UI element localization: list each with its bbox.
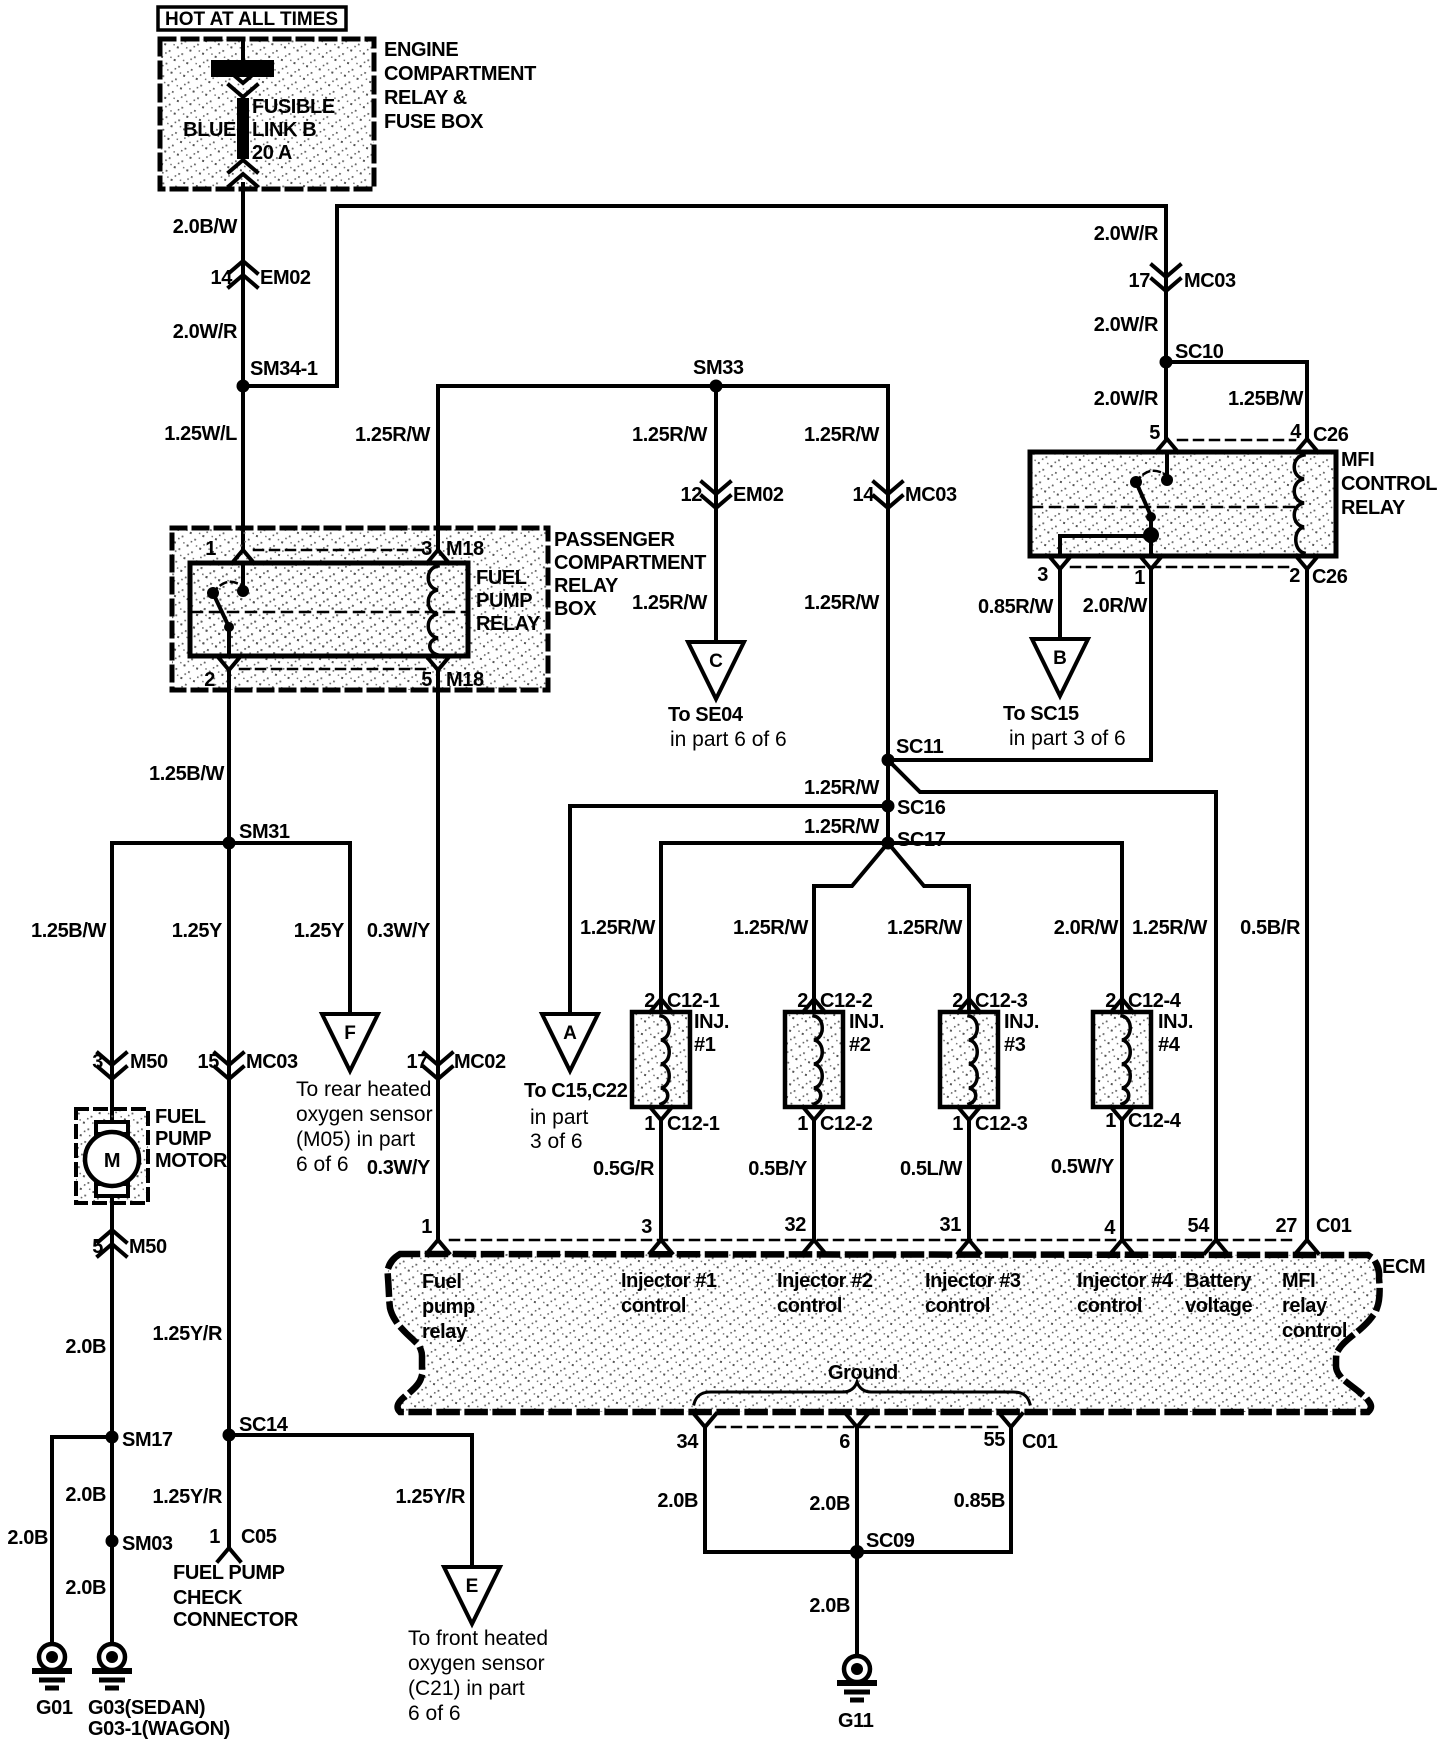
svg-text:12: 12 <box>681 484 703 506</box>
fuse bus bar <box>213 62 272 75</box>
node SC14 <box>223 1429 236 1442</box>
fuel pump motor box (dashed) <box>76 1109 148 1203</box>
svg-text:C12-1: C12-1 <box>667 990 720 1012</box>
svg-text:1.25R/W: 1.25R/W <box>733 917 809 939</box>
off-page connector A <box>542 1014 598 1071</box>
svg-text:1.25Y: 1.25Y <box>294 920 345 942</box>
wire SM33 down to triangle C <box>714 386 718 642</box>
svg-text:5: 5 <box>1149 422 1160 444</box>
svg-text:1.25Y: 1.25Y <box>172 920 223 942</box>
connector dashed line pins 1-3 <box>254 549 426 552</box>
svg-text:ECM: ECM <box>1382 1256 1425 1278</box>
svg-text:1.25R/W: 1.25R/W <box>887 917 963 939</box>
MFI switch contact <box>1165 452 1169 475</box>
svg-text:C05: C05 <box>241 1526 277 1548</box>
svg-text:0.3W/Y: 0.3W/Y <box>367 920 431 942</box>
svg-text:pump: pump <box>422 1296 475 1318</box>
svg-text:INJ.: INJ. <box>1004 1011 1039 1033</box>
svg-text:1.25R/W: 1.25R/W <box>804 816 880 838</box>
svg-text:5: 5 <box>421 669 432 691</box>
svg-text:1.25R/W: 1.25R/W <box>355 424 431 446</box>
connector 14 MC03 <box>874 482 902 508</box>
svg-text:EM02: EM02 <box>260 267 311 289</box>
svg-text:6 of 6: 6 of 6 <box>408 1702 461 1725</box>
svg-text:G03-1(WAGON): G03-1(WAGON) <box>88 1718 230 1740</box>
svg-text:C12-2: C12-2 <box>820 990 873 1012</box>
svg-text:FUEL: FUEL <box>476 567 527 589</box>
svg-text:F: F <box>344 1023 356 1044</box>
svg-text:oxygen sensor: oxygen sensor <box>296 1103 433 1126</box>
svg-text:C: C <box>709 651 723 672</box>
svg-text:relay: relay <box>422 1321 468 1343</box>
node SC10 <box>1160 356 1173 369</box>
svg-text:1: 1 <box>1105 1110 1116 1132</box>
ECM box (bold dashed with brace edges) <box>388 1254 1380 1412</box>
wire relay pin 2 down to SM31 <box>227 670 231 843</box>
pin 4 C26 <box>1296 439 1318 452</box>
pin 5 M18 <box>427 657 449 670</box>
svg-text:2.0R/W: 2.0R/W <box>1054 917 1119 939</box>
svg-text:CONNECTOR: CONNECTOR <box>173 1609 299 1631</box>
svg-text:To SE04: To SE04 <box>668 704 744 726</box>
MFI control relay box <box>1030 452 1336 556</box>
ground G11 <box>840 1656 874 1700</box>
svg-text:SM03: SM03 <box>122 1533 173 1555</box>
svg-text:C26: C26 <box>1312 566 1348 588</box>
svg-text:RELAY: RELAY <box>1341 497 1406 519</box>
off-page connector E <box>444 1567 500 1624</box>
svg-text:3: 3 <box>1037 564 1048 586</box>
pin 5 <box>1156 439 1178 452</box>
MFI coil <box>1294 455 1304 553</box>
wire SM34-1 down to fuel pump relay pin 1 <box>241 386 245 549</box>
svg-text:C12-2: C12-2 <box>820 1113 873 1135</box>
svg-text:C12-4: C12-4 <box>1128 1110 1182 1132</box>
engine compartment relay and fuse box (dashed) <box>160 39 374 189</box>
wire SM34-1 up over top to right side <box>243 206 1166 386</box>
svg-text:Ground: Ground <box>828 1362 898 1384</box>
svg-text:2.0B: 2.0B <box>657 1490 698 1512</box>
svg-text:0.5B/R: 0.5B/R <box>1240 917 1301 939</box>
svg-text:M50: M50 <box>130 1051 168 1073</box>
svg-text:COMPARTMENT: COMPARTMENT <box>554 552 706 574</box>
injector 1 box <box>632 1012 690 1107</box>
svg-text:M: M <box>104 1150 120 1172</box>
svg-text:SC09: SC09 <box>866 1530 915 1552</box>
relay switch contact <box>241 563 245 586</box>
svg-text:3: 3 <box>641 1216 652 1238</box>
pin 1 <box>232 550 254 563</box>
node SM17 <box>106 1431 119 1444</box>
wire stub to fuse bus <box>241 41 245 62</box>
wire SM31 to fuel pump motor <box>110 843 114 1124</box>
motor M <box>96 1122 128 1134</box>
wire SC17 to injector 3 <box>888 843 969 1012</box>
wire SM31 right branch down to triangle F <box>348 843 352 1014</box>
svg-text:HOT AT ALL TIMES: HOT AT ALL TIMES <box>165 9 338 30</box>
svg-text:C01: C01 <box>1316 1215 1352 1237</box>
wire injector 3 to ECM pin 31 <box>967 1120 971 1240</box>
svg-text:#1: #1 <box>694 1034 716 1056</box>
wire fuse box to SM34-1 <box>241 184 245 386</box>
svg-text:1.25R/W: 1.25R/W <box>580 917 656 939</box>
svg-text:SM31: SM31 <box>239 821 290 843</box>
svg-text:control: control <box>1077 1295 1142 1317</box>
node SC11 <box>882 754 895 767</box>
svg-text:SC14: SC14 <box>239 1414 289 1436</box>
svg-text:PUMP: PUMP <box>155 1128 211 1150</box>
svg-text:54: 54 <box>1188 1215 1211 1237</box>
svg-text:1.25R/W: 1.25R/W <box>804 777 880 799</box>
connector 3 M50 <box>98 1053 126 1079</box>
svg-text:2: 2 <box>644 990 655 1012</box>
svg-text:M50: M50 <box>129 1236 167 1258</box>
ECM pin 54 <box>1205 1240 1227 1253</box>
svg-text:C01: C01 <box>1022 1431 1058 1453</box>
svg-text:1.25R/W: 1.25R/W <box>632 424 708 446</box>
svg-text:Injector #1: Injector #1 <box>621 1270 717 1292</box>
wire SM33 right then down (main feed) <box>716 386 888 760</box>
svg-text:6 of 6: 6 of 6 <box>296 1153 349 1176</box>
wire SM17 down to G03 <box>110 1437 114 1644</box>
svg-text:SC16: SC16 <box>897 797 946 819</box>
svg-text:M18: M18 <box>446 669 484 691</box>
node SM03 <box>106 1535 119 1548</box>
relay mid dashed line <box>192 611 466 614</box>
wire pin 3 down to triangle B <box>1058 569 1062 639</box>
svg-text:BOX: BOX <box>554 598 597 620</box>
injector 2 box <box>785 1012 843 1107</box>
svg-text:2.0B: 2.0B <box>809 1493 850 1515</box>
svg-text:voltage: voltage <box>1185 1295 1252 1317</box>
svg-text:32: 32 <box>785 1214 807 1236</box>
svg-text:17: 17 <box>1129 270 1151 292</box>
svg-text:INJ.: INJ. <box>694 1011 729 1033</box>
svg-text:2.0W/R: 2.0W/R <box>1094 388 1159 410</box>
ground G03 <box>95 1644 129 1688</box>
svg-text:MC02: MC02 <box>454 1051 506 1073</box>
svg-text:2: 2 <box>952 990 963 1012</box>
svg-text:2.0B: 2.0B <box>7 1527 48 1549</box>
node SC16 <box>882 800 895 813</box>
svg-text:14: 14 <box>211 267 234 289</box>
svg-text:1: 1 <box>644 1113 655 1135</box>
svg-text:C12-4: C12-4 <box>1128 990 1182 1012</box>
ground wires from ECM pins to SC09 bus <box>705 1427 1011 1552</box>
svg-text:SM33: SM33 <box>693 357 744 379</box>
connector dashed line pins 3-1-2 <box>1071 566 1295 569</box>
ECM pin 3 <box>650 1240 672 1253</box>
wire pin 1 down and left to SC11 <box>888 569 1151 760</box>
pin 2 C26 <box>1296 556 1318 569</box>
connector 17 MC03 <box>1152 265 1180 291</box>
svg-text:1.25Y/R: 1.25Y/R <box>153 1486 223 1508</box>
svg-text:G11: G11 <box>838 1710 874 1732</box>
svg-text:MC03: MC03 <box>1184 270 1236 292</box>
off-page connector C <box>688 642 744 699</box>
svg-text:3 of 6: 3 of 6 <box>530 1130 583 1153</box>
wire injector 1 to ECM pin 3 <box>659 1120 663 1240</box>
svg-text:Battery: Battery <box>1185 1270 1252 1292</box>
pin 3 <box>1049 556 1071 569</box>
svg-text:0.85B: 0.85B <box>954 1490 1005 1512</box>
svg-text:#3: #3 <box>1004 1034 1026 1056</box>
ECM top pin dashed line <box>450 1239 1296 1242</box>
svg-text:COMPARTMENT: COMPARTMENT <box>384 63 536 85</box>
node SC17 <box>882 837 895 850</box>
svg-text:C12-3: C12-3 <box>975 1113 1028 1135</box>
svg-text:G01: G01 <box>36 1697 73 1719</box>
svg-text:A: A <box>563 1023 577 1044</box>
svg-text:FUSIBLE: FUSIBLE <box>252 96 335 118</box>
wire SC17 to injector 2 <box>814 843 888 1012</box>
wire SC11 to SC16 to SC17 <box>886 760 890 843</box>
svg-text:oxygen sensor: oxygen sensor <box>408 1652 545 1675</box>
svg-text:2.0R/W: 2.0R/W <box>1083 595 1148 617</box>
connector 15 MC03 <box>215 1053 243 1079</box>
svg-text:14: 14 <box>853 484 876 506</box>
svg-text:C12-1: C12-1 <box>667 1113 720 1135</box>
svg-text:2.0B: 2.0B <box>65 1577 106 1599</box>
svg-text:E: E <box>466 1576 479 1597</box>
wire injector 2 to ECM pin 32 <box>812 1120 816 1240</box>
svg-text:SC17: SC17 <box>897 829 946 851</box>
svg-text:MFI: MFI <box>1282 1270 1315 1292</box>
svg-text:EM02: EM02 <box>733 484 784 506</box>
ECM pin 27 C01 <box>1296 1240 1318 1253</box>
off-page connector B <box>1032 639 1088 696</box>
svg-text:CHECK: CHECK <box>173 1587 243 1609</box>
svg-text:0.5B/Y: 0.5B/Y <box>748 1158 808 1180</box>
svg-text:6: 6 <box>839 1431 850 1453</box>
svg-text:control: control <box>621 1295 686 1317</box>
svg-text:2.0B: 2.0B <box>65 1336 106 1358</box>
svg-text:1: 1 <box>421 1216 432 1238</box>
svg-text:Injector #3: Injector #3 <box>925 1270 1021 1292</box>
ECM pin 34 <box>694 1414 716 1427</box>
svg-text:To front heated: To front heated <box>408 1627 548 1650</box>
relay coil <box>428 566 438 655</box>
wire SM31 bus <box>112 841 350 845</box>
MFI mid dashed line <box>1032 506 1296 509</box>
svg-text:4: 4 <box>1104 1217 1116 1239</box>
ECM bottom pin dashed line <box>716 1426 1000 1429</box>
svg-text:#4: #4 <box>1158 1034 1181 1056</box>
ECM pin 1 <box>427 1240 449 1253</box>
svg-text:2.0B: 2.0B <box>65 1484 106 1506</box>
svg-text:B: B <box>1053 648 1067 669</box>
svg-text:2.0B: 2.0B <box>809 1595 850 1617</box>
svg-text:1: 1 <box>952 1113 963 1135</box>
connector chevrons below bus <box>229 71 257 97</box>
svg-text:27: 27 <box>1276 1215 1298 1237</box>
svg-text:LINK B: LINK B <box>252 119 316 141</box>
wire SC11 to battery voltage pin 54 <box>888 760 1216 1240</box>
svg-text:31: 31 <box>940 1214 962 1236</box>
ECM pin 6 <box>846 1414 868 1427</box>
wire SM31 down to SC14 <box>227 843 231 1548</box>
wire SC10 right and down to MFI relay pin 4 <box>1166 362 1307 439</box>
svg-text:2.0W/R: 2.0W/R <box>1094 314 1159 336</box>
wire injector 4 to ECM pin 4 <box>1120 1120 1124 1240</box>
svg-text:1: 1 <box>797 1113 808 1135</box>
node SM31 <box>223 837 236 850</box>
svg-text:control: control <box>925 1295 990 1317</box>
svg-text:relay: relay <box>1282 1295 1328 1317</box>
connector 5 M50 <box>98 1230 126 1256</box>
svg-text:1: 1 <box>1134 567 1145 589</box>
svg-text:(C21) in part: (C21) in part <box>408 1677 525 1700</box>
svg-text:control: control <box>1282 1320 1347 1342</box>
svg-text:RELAY &: RELAY & <box>384 87 467 109</box>
node SM34-1 <box>237 380 250 393</box>
svg-text:To SC15: To SC15 <box>1003 703 1079 725</box>
svg-text:1.25R/W: 1.25R/W <box>804 592 880 614</box>
wire relay pin 5 down to ECM pin 1 <box>436 670 440 1240</box>
svg-text:FUSE BOX: FUSE BOX <box>384 111 484 133</box>
HOT AT ALL TIMES label box <box>158 7 346 30</box>
node SM33 <box>710 380 723 393</box>
svg-text:in part 6 of 6: in part 6 of 6 <box>670 728 787 751</box>
svg-text:0.5L/W: 0.5L/W <box>900 1158 963 1180</box>
svg-text:2: 2 <box>797 990 808 1012</box>
connector 14 EM02 <box>229 261 257 287</box>
svg-text:C26: C26 <box>1313 424 1349 446</box>
svg-text:SC11: SC11 <box>896 736 944 758</box>
node SC09 <box>850 1545 864 1559</box>
wire SM17 to G01 <box>52 1437 112 1644</box>
svg-text:3: 3 <box>92 1051 103 1073</box>
wire SC17 to injector 4 <box>888 843 1122 1012</box>
connector dashed line pins 2-5 <box>240 668 426 671</box>
wire pin 3 up and right to SM33 <box>438 386 716 550</box>
svg-text:1.25Y/R: 1.25Y/R <box>396 1486 466 1508</box>
svg-text:ENGINE: ENGINE <box>384 39 458 61</box>
svg-text:To rear heated: To rear heated <box>296 1078 431 1101</box>
connector chevrons below fusible link <box>229 160 257 186</box>
svg-text:1.25R/W: 1.25R/W <box>804 424 880 446</box>
passenger compartment relay box (dashed) <box>172 528 548 690</box>
svg-text:2.0W/R: 2.0W/R <box>173 321 238 343</box>
connector 12 EM02 <box>702 482 730 508</box>
svg-text:15: 15 <box>198 1051 220 1073</box>
svg-text:1: 1 <box>205 538 216 560</box>
fusible link B 20A (thick bar) <box>237 98 249 159</box>
svg-text:control: control <box>777 1295 842 1317</box>
svg-text:SC10: SC10 <box>1175 341 1224 363</box>
svg-text:SM34-1: SM34-1 <box>250 358 318 380</box>
svg-text:1.25R/W: 1.25R/W <box>632 592 708 614</box>
svg-text:1.25Y/R: 1.25Y/R <box>153 1323 223 1345</box>
svg-text:INJ.: INJ. <box>1158 1011 1193 1033</box>
svg-text:(M05) in part: (M05) in part <box>296 1128 415 1151</box>
svg-text:2: 2 <box>204 669 215 691</box>
svg-text:2: 2 <box>1289 565 1300 587</box>
svg-text:0.5W/Y: 0.5W/Y <box>1051 1156 1115 1178</box>
ECM pin 31 <box>958 1240 980 1253</box>
ECM pin 55 C01 <box>1000 1414 1022 1427</box>
svg-text:5: 5 <box>92 1236 103 1258</box>
wire motor down to SM17 <box>110 1196 114 1437</box>
off-page connector F <box>322 1014 378 1071</box>
svg-text:in part 3 of 6: in part 3 of 6 <box>1009 727 1126 750</box>
svg-text:1.25B/W: 1.25B/W <box>31 920 107 942</box>
svg-text:MC03: MC03 <box>905 484 957 506</box>
wire SC14 right and down to triangle E <box>229 1435 472 1567</box>
fuel pump relay box <box>190 563 468 656</box>
svg-text:20 A: 20 A <box>252 142 292 164</box>
injector 3 box <box>940 1012 998 1107</box>
svg-text:0.5G/R: 0.5G/R <box>593 1158 655 1180</box>
svg-text:To C15,C22: To C15,C22 <box>524 1080 628 1102</box>
svg-text:Injector #4: Injector #4 <box>1077 1270 1174 1292</box>
connector 17 MC02 <box>424 1053 452 1079</box>
svg-text:BLUE: BLUE <box>183 119 236 141</box>
svg-text:2.0B/W: 2.0B/W <box>173 216 238 238</box>
svg-text:2: 2 <box>1105 990 1116 1012</box>
svg-text:1: 1 <box>209 1526 220 1548</box>
ECM pin 32 <box>803 1240 825 1253</box>
wire SC16 left then down to triangle A <box>570 806 888 1014</box>
pin 2 <box>218 657 240 670</box>
svg-text:34: 34 <box>677 1431 700 1453</box>
svg-text:in part: in part <box>530 1106 589 1129</box>
wire SC10 down to MFI relay pin 5 <box>1164 362 1168 439</box>
wire SC17 to injector 1 <box>661 843 888 1012</box>
svg-text:0.3W/Y: 0.3W/Y <box>367 1157 431 1179</box>
svg-text:17: 17 <box>407 1051 429 1073</box>
svg-text:RELAY: RELAY <box>554 575 619 597</box>
svg-text:SM17: SM17 <box>122 1429 173 1451</box>
svg-text:RELAY: RELAY <box>476 613 541 635</box>
connector dashed line pins 5-4 <box>1178 439 1295 442</box>
injector 4 box <box>1093 1012 1151 1107</box>
svg-text:INJ.: INJ. <box>849 1011 884 1033</box>
ECM pin 4 <box>1111 1240 1133 1253</box>
svg-text:55: 55 <box>984 1429 1006 1451</box>
pin 1 <box>1140 556 1162 569</box>
svg-text:1.25R/W: 1.25R/W <box>1132 917 1208 939</box>
svg-text:C12-3: C12-3 <box>975 990 1028 1012</box>
svg-text:FUEL: FUEL <box>155 1106 206 1128</box>
svg-text:2.0W/R: 2.0W/R <box>1094 223 1159 245</box>
svg-text:Injector #2: Injector #2 <box>777 1270 873 1292</box>
svg-text:MFI: MFI <box>1341 449 1374 471</box>
svg-text:#2: #2 <box>849 1034 871 1056</box>
pin 3 M18 <box>427 550 449 563</box>
svg-text:1.25B/W: 1.25B/W <box>1228 388 1304 410</box>
svg-text:PUMP: PUMP <box>476 590 532 612</box>
svg-text:1.25B/W: 1.25B/W <box>149 763 225 785</box>
svg-text:MOTOR: MOTOR <box>155 1150 228 1172</box>
svg-text:CONTROL: CONTROL <box>1341 473 1437 495</box>
ground G01 <box>35 1644 69 1688</box>
svg-text:Fuel: Fuel <box>422 1271 462 1293</box>
svg-text:PASSENGER: PASSENGER <box>554 529 675 551</box>
wire pin 2 down to ECM pin 27 <box>1305 569 1309 1240</box>
svg-text:G03(SEDAN): G03(SEDAN) <box>88 1697 205 1719</box>
svg-text:0.85R/W: 0.85R/W <box>978 596 1054 618</box>
svg-text:MC03: MC03 <box>246 1051 298 1073</box>
svg-text:1.25W/L: 1.25W/L <box>164 423 237 445</box>
svg-text:M18: M18 <box>446 538 484 560</box>
svg-text:FUEL PUMP: FUEL PUMP <box>173 1562 285 1584</box>
